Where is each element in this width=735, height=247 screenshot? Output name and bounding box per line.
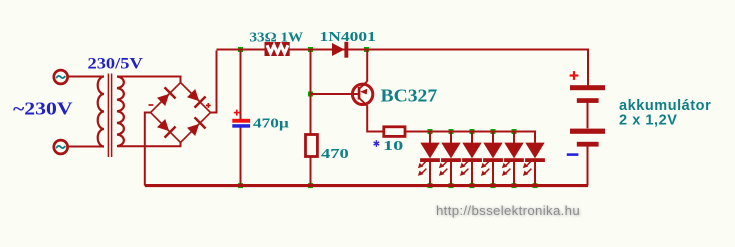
bridge diode D4 (B-R arm): [186, 117, 207, 138]
svg-text:470µ: 470µ: [253, 116, 289, 131]
battery plate 2 short: [577, 142, 599, 147]
node LED D9 bottom: [512, 183, 517, 188]
wire primary top: [68, 76, 104, 78]
node LED D5 top: [428, 129, 433, 134]
LED D8: [481, 132, 503, 186]
svg-text:1N4001: 1N4001: [320, 29, 376, 44]
bridge rectifier diamond: [151, 83, 211, 143]
svg-text:BC327: BC327: [381, 86, 438, 106]
node LED D8 top: [491, 129, 496, 134]
battery plate 1 long: [570, 85, 605, 90]
wire 470 resistor to bottom rail: [310, 157, 312, 186]
node top rail at capacitor: [238, 47, 243, 52]
battery plus sign: [570, 71, 579, 80]
svg-text:2 x 1,2V: 2 x 1,2V: [619, 112, 677, 128]
svg-text:470: 470: [321, 145, 349, 161]
node base branch: [308, 92, 313, 97]
wire capacitor top: [240, 50, 242, 120]
wire primary bottom: [68, 146, 104, 148]
svg-text:http://bsselektronika.hu: http://bsselektronika.hu: [436, 203, 580, 218]
node LED D8 bottom: [491, 183, 496, 188]
LED D5: [418, 132, 440, 186]
node LED D9 top: [512, 129, 517, 134]
wire LED top rail: [405, 132, 535, 143]
transformer secondary winding: [117, 77, 124, 147]
resistor 33 ohm body: [265, 42, 290, 56]
bridge plus label: [206, 103, 211, 108]
transistor emitter arrow: [360, 89, 367, 95]
capacitor C1 positive plate: [232, 119, 250, 123]
battery plate 1 short: [577, 98, 599, 103]
battery inter-cell wire: [587, 103, 589, 129]
node LED D10 bottom: [533, 183, 538, 188]
wire branch to 470 resistor: [310, 50, 312, 135]
capacitor C1 plus sign: [234, 110, 240, 116]
battery minus sign: [567, 153, 579, 156]
bridge diode D3 (L-B arm): [156, 118, 177, 139]
wire base of transistor: [311, 93, 359, 95]
svg-text:10: 10: [383, 137, 404, 153]
node LED D7 top: [470, 129, 475, 134]
transformer core: [107, 74, 109, 158]
transistor emitter line: [360, 81, 367, 88]
label *10: [374, 140, 380, 147]
node LED D5 bottom: [428, 183, 433, 188]
wire emitter to top rail: [366, 50, 368, 82]
LED D6: [439, 132, 461, 186]
bridge diode D2 (T-R arm): [186, 88, 207, 109]
node LED D7 bottom: [470, 183, 475, 188]
node LED D6 top: [449, 129, 454, 134]
resistor 470 body: [306, 135, 318, 157]
node top rail at emitter: [364, 47, 369, 52]
wire secondary top to bridge T: [117, 77, 181, 83]
resistor *10 body: [384, 127, 405, 137]
node bottom rail at capacitor: [238, 183, 243, 188]
wire top rail: [217, 50, 589, 86]
transistor collector line: [360, 99, 367, 106]
LED D7: [460, 132, 482, 186]
node LED D6 bottom: [449, 183, 454, 188]
LED D9: [502, 132, 524, 186]
node top rail at 470 branch: [308, 47, 313, 52]
capacitor C1 negative plate: [232, 124, 250, 128]
wire battery bottom to rail: [587, 146, 589, 186]
AC terminal bottom: [54, 140, 68, 154]
svg-text:33Ω 1W: 33Ω 1W: [250, 30, 304, 45]
battery plate 2 long: [570, 129, 605, 134]
bridge minus label: [149, 104, 154, 106]
LED D10: [523, 143, 545, 186]
svg-text:~230V: ~230V: [13, 99, 72, 119]
transistor base bar: [358, 87, 361, 100]
transformer primary winding: [98, 77, 104, 147]
wire collector down to *10 resistor: [367, 106, 383, 132]
bottom rail: [145, 184, 588, 187]
wire secondary bottom to bridge B: [117, 143, 181, 147]
wire bridge L to bottom rail: [145, 113, 151, 186]
resistor 33 ohm zigzag: [267, 45, 288, 53]
bridge diode D1 (L-T arm): [156, 87, 177, 108]
svg-text:230/5V: 230/5V: [88, 55, 144, 72]
AC terminal top: [54, 70, 68, 84]
wire capacitor bottom: [240, 128, 242, 186]
wire bridge R up to top rail: [211, 51, 217, 113]
diode 1N4001: [332, 43, 345, 56]
transistor Q1 BC327 circle: [352, 84, 372, 104]
node bottom rail at 470 resistor: [308, 183, 313, 188]
